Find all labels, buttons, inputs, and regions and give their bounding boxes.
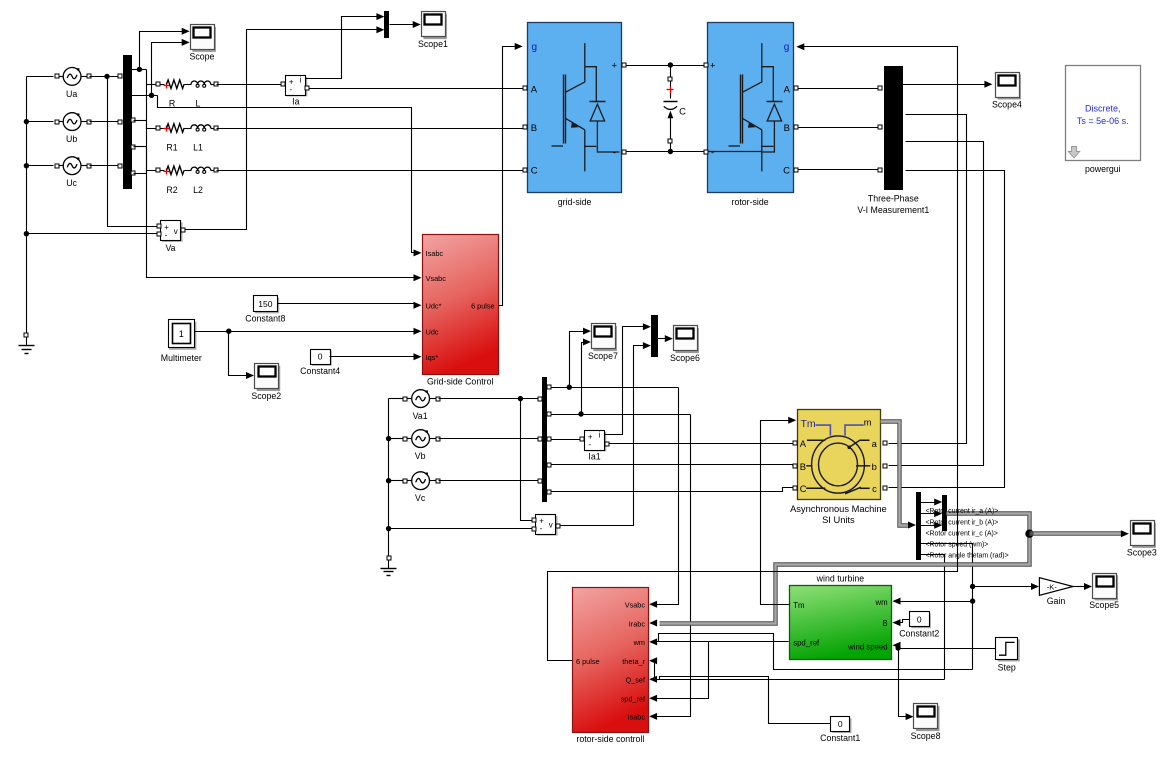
constant Constant4 bbox=[300, 350, 340, 377]
wire rotor angle from selector bbox=[921, 555, 945, 680]
svg-text:B: B bbox=[784, 123, 790, 134]
svg-text:spd_ref: spd_ref bbox=[793, 639, 820, 648]
subsystem wind turbine bbox=[790, 573, 892, 659]
ac voltage source Ua bbox=[55, 68, 91, 99]
wire selector out ir_a to mux M3 bbox=[921, 499, 943, 506]
svg-text:Scope5: Scope5 bbox=[1089, 600, 1119, 610]
svg-text:C: C bbox=[783, 165, 790, 176]
svg-text:g: g bbox=[784, 42, 790, 53]
grid-side ports bbox=[523, 63, 626, 172]
svg-text:Ia: Ia bbox=[292, 97, 299, 107]
wire Va1 to mid bus bbox=[439, 398, 538, 400]
wire Is tap to Scope7 input2 bbox=[582, 339, 592, 415]
wire rotor speed from selector bbox=[921, 544, 973, 670]
svg-text:Scope2: Scope2 bbox=[251, 391, 281, 401]
svg-text:+: + bbox=[710, 61, 716, 72]
svg-text:R: R bbox=[169, 99, 175, 109]
svg-text:wm: wm bbox=[633, 638, 645, 647]
wire Va output to mux M1 bbox=[185, 26, 385, 229]
resistor R and inductor L branch bbox=[156, 80, 218, 109]
wire Multimeter branch to Scope2 bbox=[229, 332, 255, 380]
wire measurement C to machine c bbox=[889, 171, 1005, 488]
wire Constant1 to controller Q_sef bbox=[649, 676, 830, 724]
wire into wind speed port bbox=[893, 642, 901, 649]
svg-text:a: a bbox=[872, 438, 878, 449]
svg-text:Scope6: Scope6 bbox=[670, 353, 700, 363]
ground G2 bbox=[381, 556, 397, 576]
svg-text:g: g bbox=[532, 42, 538, 53]
svg-text:Tm: Tm bbox=[801, 418, 816, 430]
wire Iabc to Scope input 2 bbox=[152, 39, 190, 96]
svg-text:Constant4: Constant4 bbox=[300, 366, 340, 376]
svg-text:<Rotor angle thetam (rad)>: <Rotor angle thetam (rad)> bbox=[926, 553, 1009, 560]
wire bus Vabc out bbox=[132, 69, 147, 71]
ac voltage source Vc bbox=[403, 472, 440, 503]
wire bus to branch R1 L1 bbox=[131, 118, 156, 129]
svg-text:C: C bbox=[531, 165, 538, 176]
mux M2 bbox=[652, 316, 658, 357]
svg-text:theta_r: theta_r bbox=[622, 657, 645, 666]
wire branch R L to Ia bbox=[217, 84, 282, 86]
svg-text:Scope1: Scope1 bbox=[418, 39, 448, 49]
wire rotor speed return to controller wm bbox=[649, 634, 972, 670]
wire measurement B to machine b bbox=[889, 142, 984, 466]
wire branch to controller spd_ref bbox=[649, 642, 708, 702]
svg-text:<Rotor current ir_a (A)>: <Rotor current ir_a (A)> bbox=[926, 508, 999, 515]
wire mid sources common vertical bbox=[389, 399, 404, 556]
svg-text:Q_sef: Q_sef bbox=[626, 676, 646, 685]
wire mux M1 to Scope1 bbox=[390, 21, 421, 28]
svg-text:Constant8: Constant8 bbox=[245, 314, 285, 324]
svg-text:6 pulse: 6 pulse bbox=[576, 657, 600, 666]
svg-text:rotor-side: rotor-side bbox=[732, 197, 769, 207]
scope Scope4 bbox=[992, 73, 1022, 110]
ac voltage source Vb bbox=[403, 430, 440, 461]
wire Ia current to mux M1 bbox=[306, 13, 385, 78]
machine ports bbox=[793, 441, 887, 490]
svg-text:Va: Va bbox=[165, 243, 175, 253]
wire Vabc down to Vsabc input bbox=[147, 70, 422, 282]
svg-text:L1: L1 bbox=[193, 143, 203, 153]
wire mid bus phase B to machine B bbox=[547, 463, 793, 467]
svg-text:Discrete,: Discrete, bbox=[1085, 104, 1121, 114]
junction rotor speed to wind turbine bbox=[970, 598, 975, 603]
rotor-side IGBT icon bbox=[709, 43, 783, 171]
measurement block Three-Phase V-I Measurement1 bbox=[857, 67, 929, 215]
svg-text:Scope3: Scope3 bbox=[1127, 548, 1157, 558]
svg-text:Scope: Scope bbox=[189, 52, 214, 62]
wire mid bus phase C to machine C bbox=[547, 488, 793, 495]
mux M3 bbox=[943, 496, 947, 531]
junction Vabc bbox=[137, 67, 142, 72]
wire wind turbine Tm to machine Tm bbox=[761, 417, 797, 605]
wire sources common vertical to ground bbox=[27, 77, 54, 336]
signal label Rotor current ir_a bbox=[926, 508, 999, 515]
ground G1 bbox=[19, 333, 35, 354]
svg-text:Isabc: Isabc bbox=[628, 713, 646, 722]
wire dc minus link bbox=[627, 151, 704, 153]
svg-text:1: 1 bbox=[179, 329, 184, 339]
junction Is tap to Scope7 bbox=[578, 411, 583, 416]
svg-text:Isabc: Isabc bbox=[426, 249, 444, 258]
powergui block bbox=[1066, 66, 1141, 174]
wire speed line to wind turbine spd_ref bbox=[659, 641, 789, 643]
wire ground to voltage measurement minus bbox=[389, 528, 534, 530]
svg-text:A: A bbox=[531, 84, 538, 95]
wire Va1 tap to voltage measurement bbox=[521, 399, 534, 521]
multimeter Multimeter bbox=[161, 320, 202, 363]
wire rotor-side A to measurement bbox=[798, 88, 878, 90]
scope Scope6 bbox=[670, 326, 700, 363]
junction mid common bbox=[386, 436, 391, 531]
mid bus Is output bbox=[547, 412, 691, 416]
rotor-side ports bbox=[704, 63, 798, 172]
junction dc minus bbox=[668, 149, 673, 154]
wire Iabc to Isabc input bbox=[158, 96, 422, 257]
wire bus Iabc out bbox=[132, 95, 158, 97]
wire selector out ir_c to mux M3 bbox=[921, 522, 943, 529]
svg-text:B: B bbox=[531, 123, 537, 134]
svg-text:Udc: Udc bbox=[426, 328, 439, 337]
junction Vs tap to Scope7 bbox=[567, 385, 572, 390]
svg-text:-K-: -K- bbox=[1047, 582, 1058, 591]
current measurement Ia bbox=[281, 75, 309, 106]
svg-text:<Rotor speed (wm)>: <Rotor speed (wm)> bbox=[926, 542, 989, 549]
svg-text:Constant1: Constant1 bbox=[820, 733, 860, 743]
svg-text:R2: R2 bbox=[166, 185, 177, 195]
svg-text:<Rotor current ir_b (A)>: <Rotor current ir_b (A)> bbox=[926, 519, 999, 526]
svg-text:Vsabc: Vsabc bbox=[426, 274, 447, 283]
subsystem rotor-side controll bbox=[573, 588, 649, 745]
signal label Rotor current ir_c bbox=[926, 530, 998, 537]
wire rotor angle to controller theta_r bbox=[649, 657, 944, 679]
wire mux M2 to Scope6 bbox=[657, 335, 673, 342]
svg-text:-: - bbox=[165, 231, 168, 240]
svg-text:Gain: Gain bbox=[1047, 596, 1066, 606]
svg-text:-: - bbox=[613, 148, 616, 159]
svg-text:Step: Step bbox=[998, 663, 1016, 673]
svg-text:rotor-side controll: rotor-side controll bbox=[576, 734, 644, 744]
svg-text:150: 150 bbox=[258, 299, 272, 309]
svg-text:V-I Measurement1: V-I Measurement1 bbox=[857, 205, 929, 215]
wire Va minus feed bbox=[27, 233, 158, 235]
svg-text:0: 0 bbox=[838, 719, 843, 729]
ac voltage source Va1 bbox=[403, 390, 440, 421]
svg-text:Uc: Uc bbox=[66, 178, 77, 188]
scope Scope3 bbox=[1127, 521, 1157, 558]
scope Scope1 bbox=[418, 12, 448, 49]
svg-text:Ts = 5e-06 s.: Ts = 5e-06 s. bbox=[1077, 116, 1129, 126]
ac voltage source Uc bbox=[55, 157, 91, 188]
svg-text:+: + bbox=[612, 61, 618, 72]
svg-text:A: A bbox=[784, 84, 791, 95]
svg-text:A: A bbox=[800, 438, 807, 449]
wire rotor speed to Gain bbox=[973, 583, 1040, 590]
svg-text:Irabc: Irabc bbox=[629, 619, 646, 628]
wire Multimeter to Udc bbox=[195, 328, 422, 335]
converter grid-side bbox=[528, 23, 622, 208]
svg-text:Iqs*: Iqs* bbox=[426, 353, 439, 362]
wire rotor speed to wind turbine wm bbox=[893, 598, 973, 605]
scope Scope bbox=[189, 25, 214, 62]
wire branch R1 L1 to grid-side B bbox=[217, 128, 524, 129]
junction Multimeter branch bbox=[226, 329, 231, 334]
svg-text:i: i bbox=[599, 430, 601, 439]
bus m thick wire machine to selector bbox=[881, 422, 917, 529]
wire selector out ir_b to mux M3 bbox=[921, 510, 943, 517]
svg-text:Scope8: Scope8 bbox=[911, 731, 941, 741]
current measurement Ia1 bbox=[580, 430, 609, 461]
bus selector S1 bbox=[917, 493, 921, 560]
svg-text:grid-side: grid-side bbox=[558, 197, 592, 207]
signal label Rotor current ir_b bbox=[926, 519, 999, 526]
wire dc plus link bbox=[627, 65, 704, 67]
machine Asynchronous Machine SI Units bbox=[790, 410, 887, 525]
wire rotor-side B to measurement bbox=[798, 127, 878, 129]
wire bus to branch R2 L2 bbox=[131, 145, 156, 171]
bus input ports bbox=[118, 74, 122, 168]
thick bus rotor currents loop to Irabc bbox=[649, 514, 1029, 627]
wire Ia to grid-side A bbox=[310, 88, 524, 90]
wire 6 pulse to grid-side g bbox=[499, 43, 523, 306]
svg-text:Va1: Va1 bbox=[413, 411, 428, 421]
svg-text:L2: L2 bbox=[193, 185, 203, 195]
scope Scope7 bbox=[588, 324, 618, 361]
resistor R2 and inductor L2 branch bbox=[156, 166, 218, 195]
svg-text:<Rotor current ir_c (A)>: <Rotor current ir_c (A)> bbox=[926, 530, 998, 537]
wire Vb to mid bus bbox=[439, 438, 538, 440]
junction rotor speed to Gain bbox=[970, 584, 975, 589]
svg-text:B: B bbox=[800, 461, 806, 472]
svg-text:Scope7: Scope7 bbox=[588, 351, 618, 361]
capacitor C bbox=[664, 66, 687, 152]
subsystem Grid-side Control bbox=[423, 235, 499, 387]
gain Gain bbox=[1039, 578, 1073, 607]
junction wind speed branch bbox=[895, 645, 900, 650]
scope Scope5 bbox=[1089, 574, 1119, 611]
svg-text:-: - bbox=[588, 440, 591, 449]
wire voltage measurement V2 to mux M2 bbox=[561, 342, 651, 525]
wire Uc to bus bbox=[90, 165, 118, 167]
svg-text:6 pulse: 6 pulse bbox=[471, 302, 495, 311]
wire Ia1 current to mux M2 bbox=[605, 323, 651, 434]
grid-side IGBT icon bbox=[552, 43, 620, 171]
wire Constant4 to Iqs* bbox=[330, 353, 422, 360]
wire Step to wind speed bbox=[899, 648, 996, 650]
voltage measurement Va bbox=[157, 221, 185, 254]
wire Constant2 to wind turbine B bbox=[893, 619, 910, 626]
resistor R1 and inductor L1 branch bbox=[156, 124, 218, 153]
converter rotor-side bbox=[708, 23, 794, 208]
svg-text:b: b bbox=[872, 461, 877, 472]
svg-text:Grid-side Control: Grid-side Control bbox=[427, 377, 494, 387]
wire Ia1 to machine A bbox=[609, 443, 793, 445]
svg-text:Scope4: Scope4 bbox=[992, 99, 1022, 109]
signal label Rotor angle thetam bbox=[926, 553, 1009, 560]
svg-text:m: m bbox=[864, 416, 872, 427]
svg-text:Ia1: Ia1 bbox=[588, 452, 600, 462]
wire Vs to rotor control Vsabc bbox=[649, 388, 678, 608]
svg-text:Vc: Vc bbox=[415, 493, 426, 503]
wire measurement A to machine a bbox=[889, 115, 967, 444]
svg-text:v: v bbox=[174, 227, 178, 236]
svg-text:B: B bbox=[882, 619, 887, 628]
wire 6 pulse to rotor-side g bbox=[548, 43, 958, 660]
wire Vabc to Scope input 1 bbox=[140, 28, 190, 70]
constant Constant2 bbox=[899, 612, 939, 639]
wire Vc to mid bus bbox=[439, 480, 538, 482]
junction thick bus to Scope3 bbox=[1025, 530, 1033, 538]
svg-text:wind turbine: wind turbine bbox=[816, 573, 865, 583]
svg-text:wm: wm bbox=[874, 598, 887, 607]
wire Gain to Scope5 bbox=[1074, 583, 1093, 590]
signal label Rotor speed bbox=[926, 542, 989, 549]
svg-text:Vsabc: Vsabc bbox=[625, 601, 646, 610]
scope Scope8 bbox=[911, 704, 941, 741]
three-phase measurement bus bar B1 bbox=[124, 56, 132, 189]
junction Iabc bbox=[149, 93, 154, 98]
svg-text:Ub: Ub bbox=[66, 134, 77, 144]
svg-text:wind speed: wind speed bbox=[847, 642, 887, 651]
wire Is to rotor control Isabc bbox=[649, 415, 690, 720]
svg-text:-: - bbox=[540, 524, 543, 533]
junction sources common bbox=[24, 119, 29, 236]
scope Scope2 bbox=[251, 364, 281, 401]
junction Va1 tap bbox=[518, 396, 523, 401]
mid bus input ports bbox=[538, 397, 542, 483]
junction dc plus bbox=[668, 62, 673, 67]
svg-text:-: - bbox=[289, 85, 292, 94]
svg-text:SI Units: SI Units bbox=[822, 515, 855, 525]
constant Constant8 bbox=[245, 296, 285, 324]
svg-text:C: C bbox=[679, 107, 686, 118]
svg-text:-: - bbox=[711, 148, 714, 159]
svg-text:C: C bbox=[800, 483, 807, 494]
constant Constant1 bbox=[820, 717, 860, 744]
svg-text:L: L bbox=[196, 99, 201, 109]
ac voltage source Ub bbox=[55, 113, 91, 144]
svg-text:Vb: Vb bbox=[415, 451, 426, 461]
svg-text:v: v bbox=[549, 520, 553, 529]
svg-text:i: i bbox=[300, 75, 302, 84]
svg-text:Tm: Tm bbox=[793, 601, 804, 610]
thick bus branch to Scope3 bbox=[1030, 530, 1129, 537]
step source Step bbox=[996, 638, 1019, 673]
wire Ub to bus bbox=[90, 121, 118, 123]
svg-text:Constant2: Constant2 bbox=[899, 629, 939, 639]
wire wind speed branch to Scope8 bbox=[899, 649, 914, 721]
voltage measurement V2 bbox=[532, 515, 560, 535]
measurement bus bar B2 bbox=[543, 378, 547, 502]
svg-text:Three-Phase: Three-Phase bbox=[868, 194, 919, 204]
wire Constant8 to Udc* bbox=[278, 302, 422, 309]
svg-text:Ua: Ua bbox=[66, 89, 77, 99]
svg-text:spd_ref: spd_ref bbox=[621, 695, 646, 704]
svg-text:Multimeter: Multimeter bbox=[161, 353, 202, 363]
mid bus Vs output bbox=[547, 385, 679, 389]
wire Vabc to Scope4 bbox=[903, 81, 993, 88]
svg-text:Udc*: Udc* bbox=[426, 302, 442, 311]
wire branch R2 L2 to grid-side C bbox=[217, 170, 524, 171]
wire Vs tap to Scope7 input1 bbox=[570, 328, 592, 388]
mux M1 bbox=[385, 12, 389, 38]
wire rotor-side C to measurement bbox=[798, 169, 878, 171]
wire Ua to bus bbox=[90, 76, 118, 78]
junction Ua tap bbox=[104, 74, 109, 79]
bus port C2 stub bbox=[131, 171, 147, 176]
svg-text:c: c bbox=[872, 483, 877, 494]
svg-text:powergui: powergui bbox=[1085, 164, 1121, 174]
svg-text:Asynchronous Machine: Asynchronous Machine bbox=[790, 504, 887, 514]
wire Va plus tap bbox=[108, 77, 158, 227]
svg-text:0: 0 bbox=[917, 614, 922, 624]
wire mid bus phase A to Ia1 bbox=[547, 437, 581, 441]
svg-text:R1: R1 bbox=[166, 143, 177, 153]
svg-text:0: 0 bbox=[318, 352, 323, 362]
